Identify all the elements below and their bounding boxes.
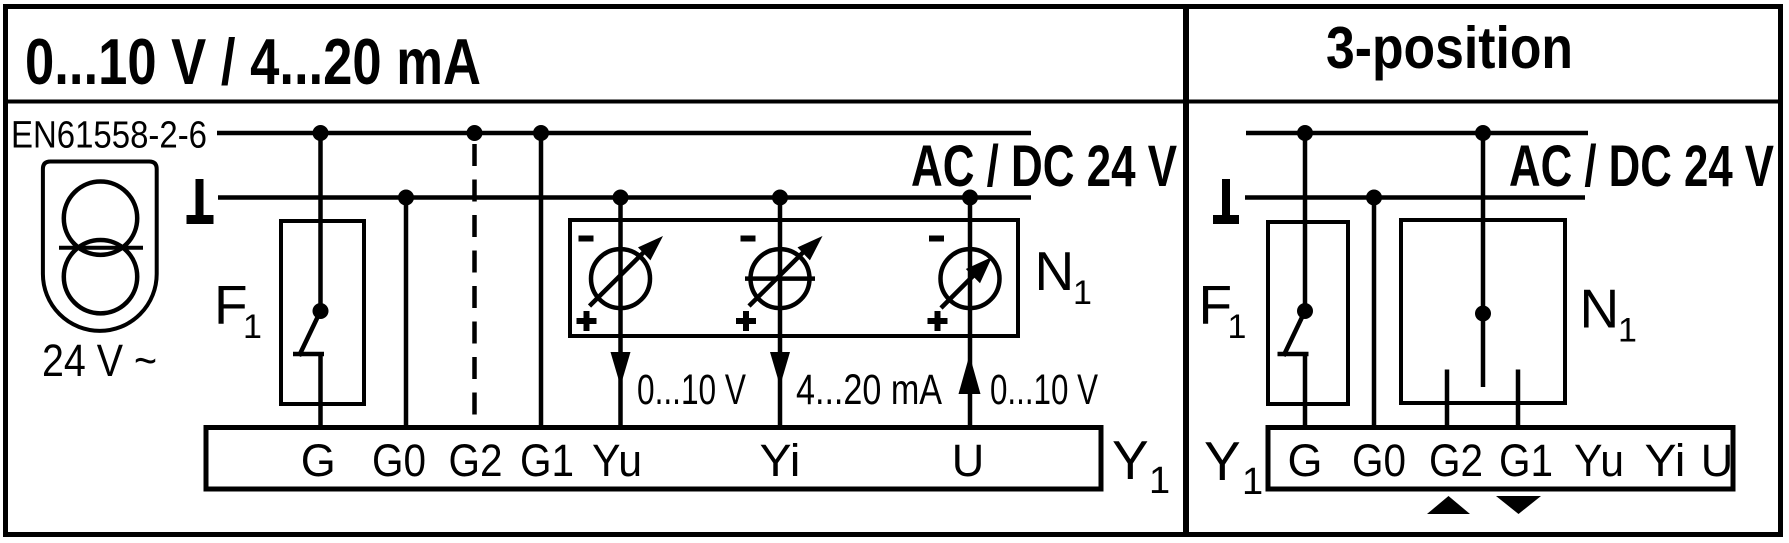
svg-text:N: N — [1035, 240, 1075, 302]
svg-text:AC / DC 24 V: AC / DC 24 V — [1509, 134, 1774, 199]
meter M-Yi adjust arrow shaft — [749, 250, 806, 306]
actuator N1 box (left panel) — [570, 220, 1018, 336]
transformer secondary winding circle — [64, 240, 137, 313]
minus sign at M-U — [929, 236, 944, 242]
svg-text:EN61558-2-6: EN61558-2-6 — [11, 115, 207, 157]
svg-text:U: U — [1701, 435, 1734, 486]
node: junction dot N1 pole on top rail (right) — [1475, 125, 1491, 141]
wire: G from F1 down to terminal G — [318, 354, 323, 428]
label Y1 (right panel) — [1204, 430, 1263, 503]
svg-text:N: N — [1580, 278, 1620, 340]
node: junction dot G1 wire on top rail — [533, 125, 549, 141]
svg-text:G0: G0 — [372, 435, 426, 486]
transformer core line — [59, 246, 143, 250]
meter M-U needle arrowhead — [966, 257, 992, 283]
switch blade in F1 — [299, 311, 321, 356]
wire: G drop from top rail into F1 — [318, 133, 323, 311]
switch contact dot in F1 (right) — [1297, 303, 1313, 319]
label N1 (right panel) — [1580, 278, 1637, 350]
svg-text:G: G — [301, 435, 336, 486]
transformer primary winding circle — [64, 182, 137, 255]
meter M-U needle shaft — [941, 274, 975, 308]
switch tick in F1 (right) — [1278, 352, 1309, 357]
wire: G0 drop to terminal (right) — [1372, 198, 1377, 429]
title band separator line — [3, 100, 1783, 104]
minus sign at M-Yi — [741, 236, 756, 242]
node: junction dot G0 on second rail (right) — [1366, 190, 1382, 206]
label F1 (right panel) — [1199, 274, 1247, 346]
svg-text:1: 1 — [1073, 274, 1092, 312]
wire: second rail (left panel) — [218, 195, 1031, 200]
meter M-Yu circle — [591, 249, 650, 308]
wire: Yi drop from second rail to terminal — [778, 198, 783, 429]
down arrowhead on Yi wire — [770, 352, 790, 386]
node: junction dot Yi on second rail — [772, 190, 788, 206]
wire: top 24V rail (right panel) — [1246, 131, 1588, 136]
svg-text:1: 1 — [1228, 308, 1247, 346]
wire: G drop from top rail into F1 (right) — [1303, 133, 1308, 311]
svg-text:Yi: Yi — [760, 435, 801, 486]
meter M-Yi arrowhead — [798, 236, 823, 260]
node: junction dot F1 wire on top rail (right) — [1297, 125, 1313, 141]
svg-text:AC / DC 24 V: AC / DC 24 V — [911, 134, 1177, 199]
minus sign at M-Yu — [579, 236, 594, 242]
svg-text:24 V ~: 24 V ~ — [42, 335, 157, 386]
meter M-Yu arrowhead — [638, 236, 663, 260]
plus sign at M-Yu — [577, 311, 597, 331]
svg-text:G0: G0 — [1352, 435, 1406, 486]
wire: N1 pole from top rail — [1481, 133, 1486, 387]
svg-text:0...10 V / 4...20 mA: 0...10 V / 4...20 mA — [25, 25, 481, 98]
wire: G0 drop to terminal — [404, 198, 409, 429]
svg-text:G2: G2 — [449, 435, 503, 486]
wire: G2 throw prong to terminal (right) — [1445, 370, 1450, 429]
ground symbol (left panel) — [187, 179, 214, 224]
fuse F1 box (left panel) — [281, 221, 364, 404]
terminal block Y1 box (left panel) — [206, 428, 1101, 490]
svg-text:G: G — [1287, 435, 1322, 486]
node: junction dot Yu on second rail — [613, 190, 629, 206]
svg-text:U: U — [952, 435, 985, 486]
svg-text:Yi: Yi — [1645, 435, 1686, 486]
plus sign at M-Yi — [736, 311, 756, 331]
down triangle marker below G1 (right panel) — [1496, 496, 1541, 514]
wire: G1 drop to terminal — [539, 133, 544, 428]
svg-text:Y: Y — [1204, 430, 1241, 492]
svg-text:1: 1 — [1242, 461, 1263, 503]
wire: G1 throw prong to terminal (right) — [1516, 370, 1521, 429]
switch contact dot in F1 — [313, 303, 329, 319]
switch blade in F1 (right) — [1284, 311, 1306, 356]
meter M-Yi circle — [751, 249, 810, 308]
wire: G from F1 down to terminal (right) — [1303, 354, 1308, 428]
svg-text:4...20 mA: 4...20 mA — [796, 366, 942, 414]
svg-text:1: 1 — [1149, 460, 1170, 502]
up arrowhead on U wire — [959, 355, 981, 394]
up triangle marker below G2 (right panel) — [1427, 496, 1470, 514]
wire: G2 dashed drop to terminal — [472, 133, 477, 415]
svg-text:G1: G1 — [1499, 435, 1553, 486]
switch tick in F1 — [293, 352, 324, 357]
node: junction dot G wire on top rail — [313, 125, 329, 141]
svg-text:0...10 V: 0...10 V — [990, 366, 1098, 414]
svg-text:G2: G2 — [1429, 435, 1483, 486]
terminal block Y1 box (right panel) — [1268, 428, 1733, 490]
node: junction dot U on second rail — [962, 190, 978, 206]
wire: top 24V rail (left panel) — [217, 131, 1031, 136]
node: junction dot G2 dashed wire on top rail — [467, 125, 483, 141]
ground symbol (right panel) — [1213, 179, 1239, 224]
svg-text:Yu: Yu — [592, 435, 642, 486]
wire: U drop from second rail to terminal — [968, 198, 973, 429]
plus sign at M-U — [928, 311, 948, 331]
wire: Yu drop from second rail to terminal — [618, 198, 623, 429]
svg-text:3-position: 3-position — [1326, 15, 1573, 81]
panel divider line — [1183, 7, 1189, 535]
fuse F1 box (right panel) — [1268, 222, 1348, 404]
svg-text:1: 1 — [1618, 312, 1637, 350]
down arrowhead on Yu wire — [611, 352, 631, 386]
svg-text:1: 1 — [243, 308, 262, 346]
meter M-U circle — [941, 249, 1000, 308]
switch pole dot in N1 (right) — [1475, 306, 1491, 322]
svg-text:0...10 V: 0...10 V — [637, 366, 746, 414]
label Y1 (left panel) — [1112, 429, 1170, 502]
wire: second rail (right panel) — [1245, 195, 1585, 200]
actuator N1 box (right panel) — [1401, 220, 1565, 403]
label F1 (left panel) — [214, 274, 262, 346]
svg-text:G1: G1 — [520, 435, 574, 486]
svg-text:Y: Y — [1112, 429, 1149, 491]
label N1 (left panel) — [1035, 240, 1092, 312]
meter M-Yi horizontal bar — [745, 276, 815, 281]
svg-text:Yu: Yu — [1574, 435, 1624, 486]
meter M-Yu adjust arrow shaft — [590, 250, 647, 306]
transformer T outline — [43, 162, 157, 331]
node: junction dot G0 wire on second rail — [398, 190, 414, 206]
